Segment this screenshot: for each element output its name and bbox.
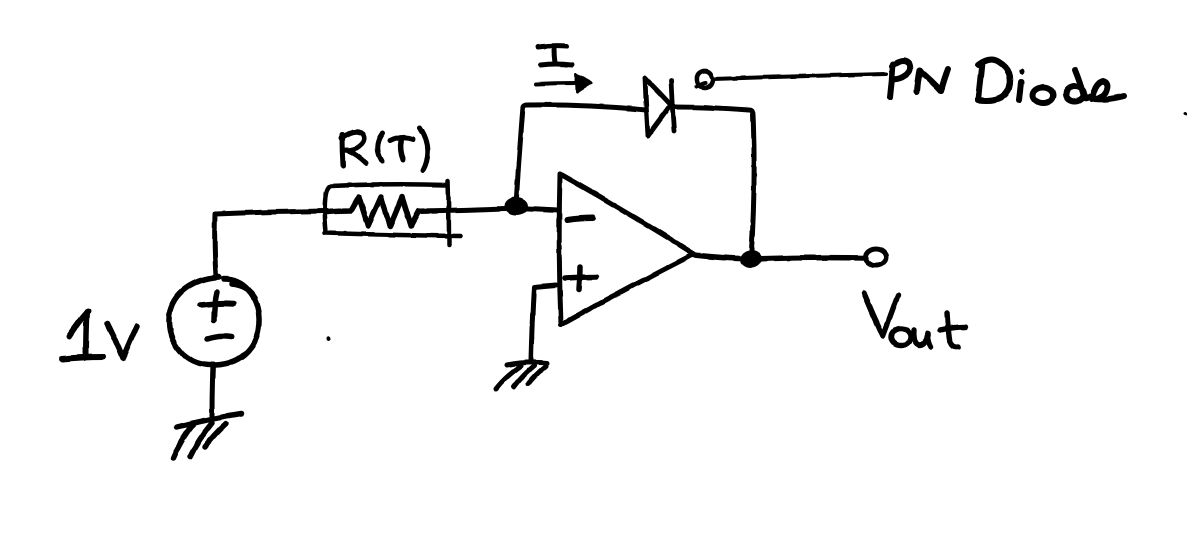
ground below op-amp [496,362,547,389]
current arrow [536,75,591,92]
wire from diode cathode to output node [673,107,754,258]
label Vout [864,293,966,347]
op-amp U1 [559,174,694,325]
output terminal [866,249,887,266]
label PN Diode [890,60,1124,103]
label R(T) [341,128,428,170]
wire from source top to resistor [215,211,327,277]
voltage source V1 [169,277,259,365]
source minus sign [207,336,232,339]
ink speck right [1183,113,1187,116]
wire source bottom to ground [212,364,213,417]
diode D1 [645,78,674,136]
ink speck [327,337,331,342]
wire from resistor to inverting node [419,208,558,211]
annotation arrow to diode [697,71,886,88]
node inverting-input junction [504,197,528,215]
ground below source [173,414,241,458]
wire op-amp plus input to ground [531,285,556,361]
label 1V [62,311,137,359]
wire from node up and across to diode anode [516,105,646,205]
resistor R1 box [325,181,461,245]
source plus sign [200,292,234,321]
node output junction [740,250,762,268]
resistor R1 zigzag [327,197,419,226]
op-amp minus sign [567,218,593,220]
wire op-amp output to terminal [694,255,866,259]
current label I [538,46,572,65]
op-amp plus sign [565,267,596,289]
